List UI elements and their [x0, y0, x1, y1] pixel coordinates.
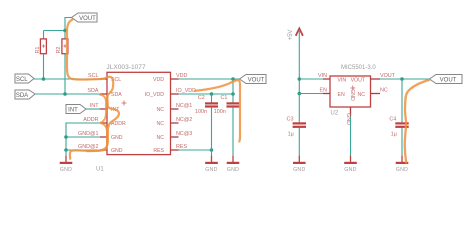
- svg-text:GND: GND: [349, 89, 355, 101]
- pin EN: [323, 93, 330, 95]
- pin 4 ADDR: [100, 122, 107, 124]
- wire SDA: [35, 93, 100, 95]
- node GND@2 junction: [64, 148, 68, 152]
- flag SCL: [15, 74, 34, 83]
- svg-text:VOUT: VOUT: [248, 77, 265, 83]
- ground (U2): [344, 156, 357, 173]
- flag VOUT (middle): [240, 75, 267, 84]
- svg-text:SDA: SDA: [16, 93, 28, 99]
- svg-text:INT: INT: [68, 107, 78, 113]
- node IO_VDD/C2 junction: [210, 92, 214, 96]
- node +5V/VIN junction: [298, 77, 302, 81]
- svg-text:NC: NC: [157, 121, 165, 127]
- svg-text:GND: GND: [111, 135, 123, 141]
- wire ADDR: [66, 123, 100, 150]
- svg-text:SDA: SDA: [111, 92, 122, 98]
- wire VDD to VOUT flag: [179, 78, 240, 80]
- pin VDD: [171, 78, 179, 80]
- power +5V: [288, 28, 303, 40]
- svg-text:IO_VDD: IO_VDD: [145, 92, 165, 98]
- ground (C4): [396, 156, 409, 173]
- svg-text:VIN: VIN: [318, 73, 327, 79]
- wire SCL: [34, 78, 100, 80]
- svg-text:C1: C1: [220, 95, 227, 101]
- wire U2 GND down: [350, 117, 352, 157]
- svg-text:GND: GND: [293, 167, 305, 173]
- svg-text:EN: EN: [338, 92, 345, 98]
- svg-text:+5V: +5V: [288, 30, 294, 41]
- pin 5 GND: [100, 136, 107, 138]
- svg-text:INT: INT: [90, 103, 99, 109]
- node IO_VDD/C1 junction: [231, 92, 235, 96]
- capacitor C1: [214, 94, 240, 156]
- wire GND@1: [66, 136, 100, 138]
- wire VOUT to flag: [380, 78, 430, 80]
- svg-text:EN: EN: [320, 88, 328, 94]
- node SDA/R2 junction: [63, 92, 67, 96]
- svg-text:C3: C3: [287, 117, 294, 123]
- svg-text:RES: RES: [153, 148, 164, 154]
- capacitor C4: [389, 79, 408, 156]
- svg-text:1µ: 1µ: [288, 132, 294, 138]
- svg-text:VIN: VIN: [338, 78, 347, 84]
- svg-text:ADDR: ADDR: [111, 121, 126, 127]
- svg-text:GND: GND: [227, 167, 239, 173]
- svg-text:GND@2: GND@2: [78, 144, 98, 150]
- svg-text:NC@3: NC@3: [176, 131, 192, 137]
- wire +5V rail: [298, 30, 300, 122]
- svg-text:SCL: SCL: [16, 77, 28, 83]
- svg-text:NC: NC: [358, 92, 366, 98]
- svg-text:U2: U2: [331, 111, 339, 117]
- svg-text:C2: C2: [198, 95, 205, 101]
- svg-text:GND: GND: [60, 167, 72, 173]
- node VDD junction: [231, 77, 235, 81]
- pin VIN: [323, 78, 330, 80]
- svg-text:R1: R1: [35, 47, 41, 54]
- svg-text:VDD: VDD: [176, 73, 187, 79]
- node +5V/EN junction: [298, 92, 302, 96]
- svg-text:C4: C4: [389, 117, 396, 123]
- resistor R1: [35, 39, 47, 54]
- svg-text:GND: GND: [344, 167, 356, 173]
- capacitor C3: [287, 117, 306, 157]
- node VOUT/C4 junction: [400, 77, 404, 81]
- svg-text:VOUT: VOUT: [380, 73, 396, 79]
- pin 3 INT: [100, 108, 107, 110]
- wire orange highlight SDA loop: [100, 95, 106, 123]
- node SCL/R1 junction: [42, 77, 46, 81]
- svg-text:R2: R2: [56, 47, 62, 54]
- svg-text:ADDR: ADDR: [83, 117, 98, 123]
- svg-text:U1: U1: [96, 166, 104, 172]
- pin NC: [371, 93, 381, 95]
- ground (C1): [227, 156, 240, 173]
- svg-text:VDD: VDD: [153, 77, 164, 83]
- svg-text:NC@1: NC@1: [176, 103, 192, 109]
- svg-text:RES: RES: [176, 144, 187, 150]
- wire to ground: [65, 150, 67, 156]
- flag INT: [66, 105, 86, 114]
- op-amp U1 (IC JLX003-1077): [96, 64, 171, 173]
- svg-text:NC: NC: [380, 88, 388, 94]
- flag VOUT (right): [430, 75, 463, 84]
- pin 1 SCL: [100, 78, 107, 80]
- wire RES to C2 ground: [179, 149, 212, 151]
- capacitor C2: [195, 94, 218, 156]
- node rail/R2 junction: [63, 29, 67, 33]
- svg-text:GND: GND: [205, 167, 217, 173]
- wire GND@2: [66, 149, 100, 151]
- pin GND stub: [350, 107, 352, 117]
- svg-text:1µ: 1µ: [391, 132, 397, 138]
- svg-text:VOUT: VOUT: [440, 77, 457, 83]
- wire orange highlight VOUT/R2 to SCL pin: [67, 20, 119, 159]
- wire orange highlight GND@2 second strand: [87, 123, 107, 151]
- pin RES: [171, 149, 179, 151]
- ground (left): [60, 156, 73, 173]
- node RES junction: [210, 148, 214, 152]
- pin NC 1: [171, 108, 179, 110]
- wire top rail: [44, 30, 66, 32]
- svg-text:NC: NC: [157, 107, 165, 113]
- wire VIN: [299, 78, 323, 80]
- wire IO_VDD to VDD riser: [232, 79, 234, 94]
- wire R2 bottom to SDA: [64, 54, 66, 94]
- svg-text:VOUT: VOUT: [79, 16, 96, 22]
- node GND@1 junction: [64, 135, 68, 139]
- svg-text:GND: GND: [111, 148, 123, 154]
- svg-text:IO_VDD: IO_VDD: [176, 88, 196, 94]
- wire INT: [86, 108, 100, 110]
- svg-text:NC: NC: [157, 135, 165, 141]
- ground (C3): [293, 156, 306, 173]
- svg-text:GND@1: GND@1: [78, 131, 98, 137]
- pin NC 3: [171, 136, 179, 138]
- wire VOUT flag to rail: [65, 18, 72, 31]
- pin 2 SDA: [100, 93, 107, 95]
- svg-text:GND: GND: [345, 113, 351, 125]
- resistor R2: [56, 39, 68, 54]
- pin VOUT: [371, 78, 381, 80]
- flag VOUT (top left): [72, 13, 98, 22]
- svg-text:MIC5501-3.0: MIC5501-3.0: [341, 65, 376, 71]
- pin NC 2: [171, 122, 179, 124]
- svg-text:100n: 100n: [214, 109, 226, 115]
- svg-text:JLX003-1077: JLX003-1077: [106, 64, 146, 71]
- ground (C2): [205, 156, 218, 173]
- pin 6 GND: [100, 149, 107, 151]
- wire R1 bottom to SCL: [43, 54, 45, 79]
- flag SDA: [15, 90, 35, 99]
- op-amp U2 (regulator MIC5501-3.0): [330, 65, 376, 117]
- svg-text:SDA: SDA: [87, 88, 98, 94]
- svg-text:100n: 100n: [195, 109, 207, 115]
- wire orange highlight U2 VOUT to C4 ground: [405, 80, 429, 163]
- wire orange highlight C1 to VOUT: [195, 80, 240, 141]
- svg-text:GND: GND: [396, 167, 408, 173]
- wire IO_VDD: [179, 93, 234, 95]
- pin IO_VDD: [171, 93, 179, 95]
- svg-text:NC@2: NC@2: [176, 117, 192, 123]
- wire EN: [299, 93, 323, 95]
- svg-text:VOUT: VOUT: [351, 78, 366, 84]
- wire R1 top: [43, 31, 45, 39]
- wire R2 top: [64, 31, 66, 39]
